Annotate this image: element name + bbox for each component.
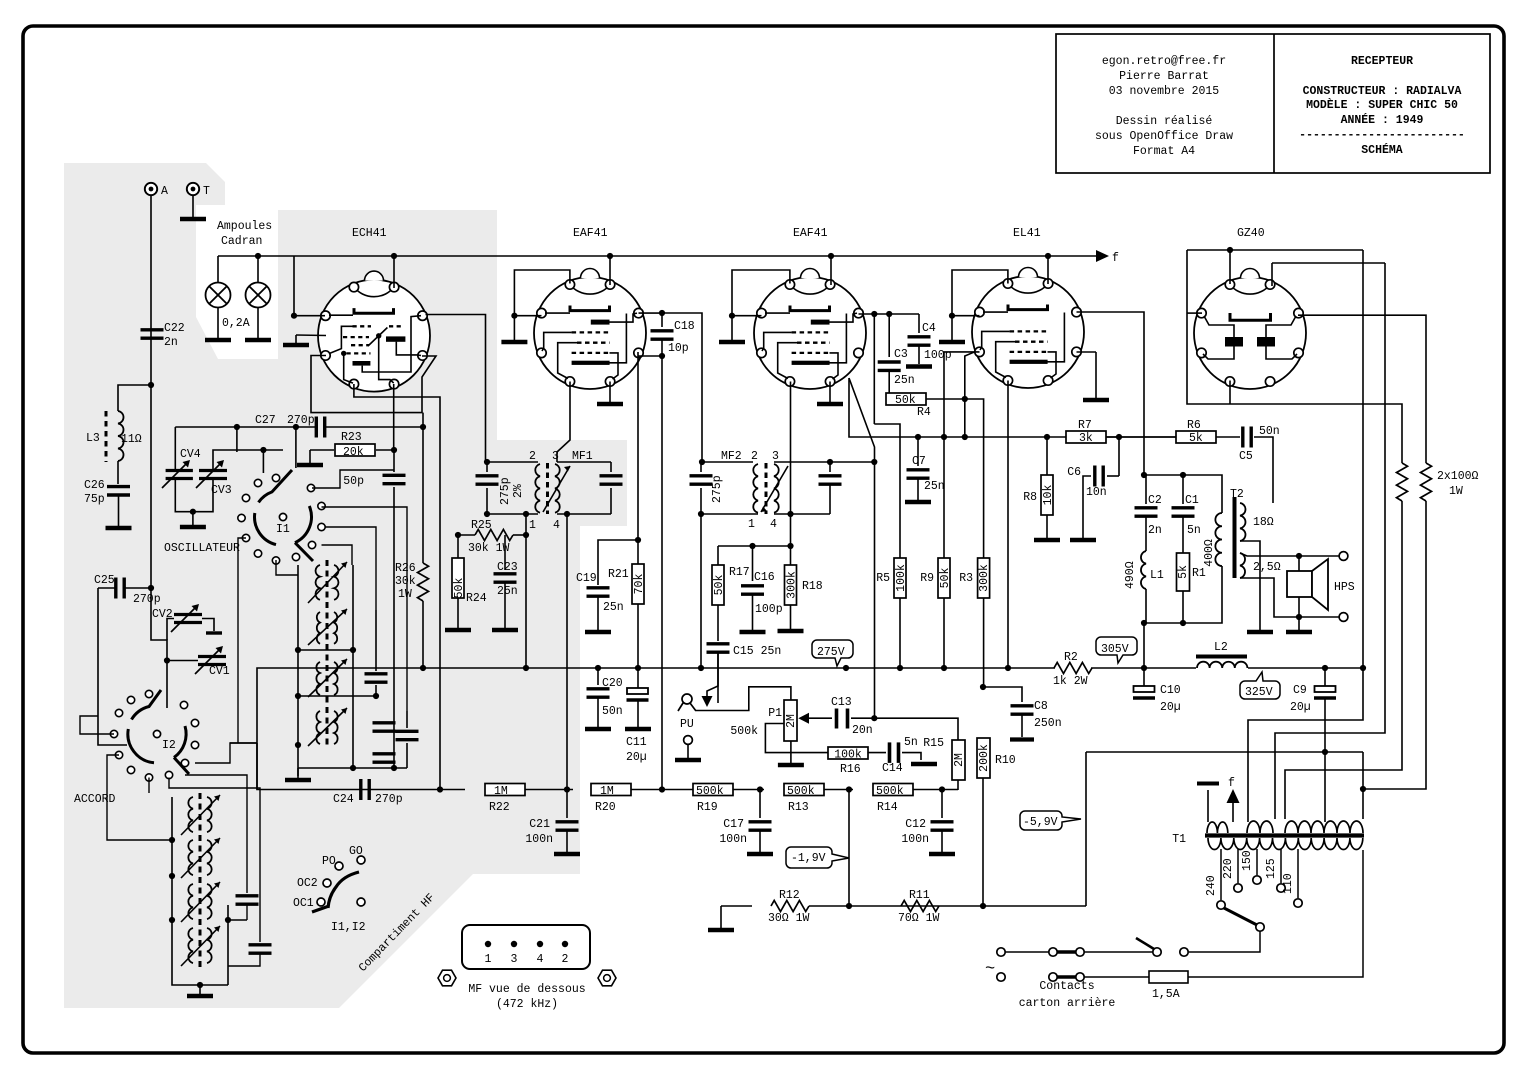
capacitor C16 — [752, 546, 754, 581]
svg-text:490Ω: 490Ω — [1124, 561, 1137, 589]
svg-text:C26: C26 — [84, 479, 105, 492]
svg-text:Pierre Barrat: Pierre Barrat — [1119, 70, 1209, 83]
wire EAF41-2 top cap — [732, 270, 790, 340]
svg-text:10p: 10p — [668, 342, 689, 355]
svg-text:50k: 50k — [895, 394, 916, 407]
svg-text:C22: C22 — [164, 322, 185, 335]
accord coil stack I2 — [181, 793, 220, 968]
wire C15 arrow into PU line — [707, 652, 718, 699]
ground R23 — [309, 450, 311, 463]
wire C13 to R15 — [874, 718, 958, 740]
svg-text:500k: 500k — [696, 785, 724, 798]
svg-text:4: 4 — [770, 518, 777, 531]
svg-text:270p: 270p — [287, 414, 315, 427]
svg-text:CV3: CV3 — [211, 484, 232, 497]
svg-text:R6: R6 — [1187, 419, 1201, 432]
svg-text:EAF41: EAF41 — [793, 227, 828, 240]
svg-text:50p: 50p — [343, 475, 364, 488]
wire EL41 top cap — [952, 270, 1008, 340]
svg-text:50k: 50k — [939, 568, 952, 589]
arrow f T1 — [1232, 800, 1234, 822]
svg-text:4: 4 — [553, 519, 560, 532]
wire speaker bottom — [1240, 578, 1339, 617]
capacitor MF1 primary 275p 2% — [476, 476, 499, 484]
capacitor C19 — [598, 540, 638, 585]
svg-text:R7: R7 — [1078, 419, 1092, 432]
wire EL41 heater — [1047, 256, 1049, 284]
svg-text:30k: 30k — [395, 575, 416, 588]
svg-text:R9: R9 — [920, 572, 934, 585]
transformer MF1 — [484, 450, 611, 532]
svg-text:2M: 2M — [785, 714, 798, 728]
capacitor accord pad 2 — [249, 945, 272, 953]
stub CV2 right — [202, 619, 214, 632]
ground stack I1 — [297, 768, 299, 778]
wire EAF41-1 anode right — [639, 312, 663, 314]
wire EAF41-1 grid to MF1 — [557, 382, 570, 463]
svg-text:150: 150 — [1241, 850, 1254, 871]
capacitor accord pad 1 — [236, 896, 259, 904]
resistor R5 — [874, 424, 900, 559]
B+ bus 275V/305V — [257, 668, 1055, 790]
resistor R20 — [591, 784, 631, 796]
AVC resistor row — [257, 743, 465, 790]
svg-text:275p: 275p — [499, 477, 512, 505]
svg-text:C20: C20 — [602, 677, 623, 690]
capacitor MF2 secondary — [829, 462, 831, 472]
svg-text:R3: R3 — [959, 572, 973, 585]
svg-text:305V: 305V — [1101, 643, 1129, 656]
svg-text:1W: 1W — [1449, 485, 1463, 498]
wire C27 line — [175, 426, 316, 428]
wire speaker center ground — [1298, 556, 1300, 630]
title block — [1056, 34, 1490, 173]
svg-text:100k: 100k — [895, 564, 908, 592]
svg-text:R25: R25 — [471, 519, 492, 532]
svg-text:C16: C16 — [754, 571, 775, 584]
capacitor C27 — [316, 417, 324, 438]
resistor R3 — [965, 399, 984, 559]
trimmer CV3 — [213, 450, 283, 469]
svg-text:R23: R23 — [341, 431, 362, 444]
svg-text:400Ω: 400Ω — [1203, 539, 1216, 567]
svg-text:R15: R15 — [923, 737, 944, 750]
resistor R23 — [376, 449, 394, 451]
svg-text:C8: C8 — [1034, 700, 1048, 713]
svg-text:C13: C13 — [831, 696, 852, 709]
svg-text:R22: R22 — [489, 801, 510, 814]
svg-text:2: 2 — [529, 450, 536, 463]
svg-text:25n: 25n — [497, 585, 518, 598]
svg-text:500k: 500k — [876, 785, 904, 798]
wire R4 to EL41 grid — [965, 352, 980, 399]
svg-text:20µ: 20µ — [1290, 701, 1311, 714]
svg-text:R24: R24 — [466, 592, 487, 605]
capacitor C4 — [918, 314, 920, 333]
capacitor osc pad C — [396, 731, 419, 739]
svg-text:MF2: MF2 — [721, 450, 742, 463]
wire CV2 left — [167, 619, 174, 641]
svg-text:1k 2W: 1k 2W — [1053, 675, 1088, 688]
svg-text:OC1: OC1 — [293, 897, 314, 910]
svg-text:200k: 200k — [978, 744, 991, 772]
svg-text:20µ: 20µ — [1160, 701, 1181, 714]
wire stack I1 left bus — [297, 565, 299, 776]
capacitor C23 — [504, 535, 506, 570]
capacitor osc pad D — [373, 754, 396, 762]
svg-text:75p: 75p — [84, 493, 105, 506]
capacitor C15 — [707, 644, 730, 652]
svg-text:275p: 275p — [711, 475, 724, 503]
rotary switch I2 — [110, 690, 198, 781]
svg-text:R14: R14 — [877, 801, 898, 814]
wire EAF41-2 heater — [830, 256, 832, 285]
svg-text:Format A4: Format A4 — [1133, 145, 1195, 158]
svg-text:3: 3 — [511, 953, 518, 966]
svg-text:2n: 2n — [164, 336, 178, 349]
wire PU to P1 — [696, 687, 791, 711]
capacitor C18 — [661, 313, 663, 327]
wire EL41 cathode down — [1007, 381, 1009, 669]
svg-text:R4: R4 — [917, 406, 931, 419]
svg-text:C15 25n: C15 25n — [733, 645, 781, 658]
svg-text:5n: 5n — [1187, 524, 1201, 537]
resistor R2 — [1054, 663, 1092, 674]
capacitor MF2 primary 275p — [690, 476, 713, 484]
svg-text:R12: R12 — [779, 889, 800, 902]
wire rail to R6 — [1119, 436, 1176, 438]
wire EAF41-1 heater — [609, 256, 611, 285]
MF connector — [462, 925, 590, 969]
wire heater return — [1086, 751, 1363, 753]
callout 305V — [1096, 637, 1137, 663]
svg-text:R20: R20 — [595, 801, 616, 814]
terminal PU — [684, 736, 693, 745]
resistor 2x100 right — [1421, 463, 1432, 501]
resistor R19 — [693, 784, 733, 796]
capacitor C12 — [941, 790, 943, 819]
svg-text:C6: C6 — [1067, 466, 1081, 479]
svg-text:10k: 10k — [1042, 485, 1055, 506]
svg-text:C21: C21 — [529, 818, 550, 831]
ground T — [192, 195, 194, 218]
lamp 2 — [246, 283, 271, 308]
ground ECH41 cathode — [296, 334, 326, 337]
mains switch — [1180, 948, 1188, 956]
wire heater bus f — [218, 255, 1097, 257]
capacitor C2 — [1144, 475, 1222, 513]
wire L1 R1 bottom tie — [1144, 566, 1222, 623]
svg-text:C7: C7 — [912, 455, 926, 468]
callout -5,9V — [1020, 811, 1081, 830]
wire EAF41-1 diode out — [637, 352, 639, 540]
svg-text:300k: 300k — [978, 564, 991, 592]
svg-text:R18: R18 — [802, 580, 823, 593]
resistor R21 — [637, 540, 639, 564]
svg-text:20µ: 20µ — [626, 751, 647, 764]
wire GZ40 top right — [1272, 262, 1385, 264]
svg-text:70k: 70k — [633, 574, 646, 595]
capacitor C6 — [1118, 437, 1120, 476]
resistor R22 — [485, 784, 525, 796]
svg-text:Cadran: Cadran — [221, 235, 262, 248]
ground EAF41-2 cathode — [829, 382, 831, 403]
svg-text:10n: 10n — [1086, 486, 1107, 499]
svg-text:------------------------: ------------------------ — [1299, 129, 1465, 142]
capacitor C14 — [888, 742, 892, 763]
node antenna/L3 — [148, 382, 154, 388]
svg-text:CV1: CV1 — [209, 665, 230, 678]
resistor R6 — [1176, 431, 1216, 443]
svg-text:ACCORD: ACCORD — [74, 793, 116, 806]
HF compartment shaded region — [64, 163, 627, 1008]
capacitor C25 — [98, 587, 116, 589]
wire GZ40 top left — [1187, 249, 1363, 251]
svg-text:GZ40: GZ40 — [1237, 227, 1265, 240]
wave switch PO GO OC — [293, 845, 366, 934]
wire EAF41-2 diode out — [790, 382, 792, 566]
svg-text:C17: C17 — [723, 818, 744, 831]
fuse 1,5A — [1149, 971, 1188, 983]
trimmer CV2 — [174, 613, 202, 616]
wire ECH41 grid column — [439, 412, 441, 790]
oscillator coil stack I1 — [308, 560, 347, 748]
svg-text:2: 2 — [751, 450, 758, 463]
svg-text:18Ω: 18Ω — [1253, 516, 1274, 529]
svg-text:50k: 50k — [453, 578, 466, 599]
svg-text:R11: R11 — [909, 889, 930, 902]
wire bus end to T1 — [1248, 668, 1363, 822]
wire osc grid — [295, 427, 297, 468]
resistor R4 — [886, 393, 926, 405]
svg-text:100p: 100p — [755, 603, 783, 616]
svg-text:240: 240 — [1205, 875, 1218, 896]
svg-text:R21: R21 — [608, 568, 629, 581]
resistor R17 — [717, 546, 719, 565]
svg-text:carton arrière: carton arrière — [1019, 997, 1116, 1010]
svg-text:sous OpenOffice Draw: sous OpenOffice Draw — [1095, 130, 1233, 143]
trimmer CV4 — [174, 427, 176, 469]
resistor R1 — [1177, 553, 1190, 591]
ground EAF41-1 left — [501, 341, 527, 343]
svg-text:220: 220 — [1222, 858, 1235, 879]
svg-text:100n: 100n — [525, 833, 553, 846]
svg-text:100k: 100k — [834, 749, 862, 762]
rotary switch I1 — [238, 470, 325, 564]
resistor R12 — [721, 905, 752, 907]
speaker HPS — [1339, 552, 1348, 561]
svg-text:OSCILLATEUR: OSCILLATEUR — [164, 542, 240, 555]
ground lamp1 — [217, 307, 219, 338]
wire MF1 pin4 down — [566, 514, 568, 790]
svg-text:0,2A: 0,2A — [222, 317, 250, 330]
wire screen rail — [849, 378, 1066, 437]
svg-text:2: 2 — [562, 953, 569, 966]
resistor R10 — [977, 738, 990, 778]
svg-text:-1,9V: -1,9V — [791, 852, 826, 865]
resistor R18 — [785, 565, 797, 605]
svg-text:C9: C9 — [1293, 684, 1307, 697]
svg-text:CV4: CV4 — [180, 448, 201, 461]
lamp 1 — [206, 283, 231, 308]
svg-text:100p: 100p — [924, 349, 952, 362]
svg-text:R5: R5 — [876, 572, 890, 585]
svg-text:R2: R2 — [1064, 651, 1078, 664]
svg-text:4: 4 — [537, 953, 544, 966]
resistor R15 — [952, 740, 965, 780]
svg-text:30Ω 1W: 30Ω 1W — [768, 912, 810, 925]
capacitor C7 — [917, 437, 919, 466]
svg-text:R19: R19 — [697, 801, 718, 814]
coil L1 — [1141, 551, 1146, 589]
svg-text:C4: C4 — [922, 322, 936, 335]
wire 18R bottom to ground — [1240, 541, 1260, 630]
wire antenna — [151, 195, 167, 708]
svg-text:C12: C12 — [905, 818, 926, 831]
svg-text:T2: T2 — [1230, 488, 1244, 501]
wire C25 left drop — [98, 588, 127, 745]
svg-text:1M: 1M — [600, 785, 614, 798]
svg-text:270p: 270p — [375, 793, 403, 806]
wire MF2 sec top to grid — [774, 461, 830, 463]
svg-text:50k: 50k — [713, 575, 726, 596]
svg-text:L2: L2 — [1214, 641, 1228, 654]
svg-text:(472 kHz): (472 kHz) — [496, 998, 558, 1011]
resistor R8 — [1046, 437, 1048, 475]
svg-text:30k 1W: 30k 1W — [468, 542, 510, 555]
svg-text:3: 3 — [772, 450, 779, 463]
svg-text:2M: 2M — [953, 753, 966, 767]
capacitor C10 electrolytic — [1143, 668, 1145, 686]
resistor R16 — [828, 747, 868, 759]
T1 secondary taps — [1220, 849, 1222, 900]
wire ECH41 anode to MF1 — [426, 315, 486, 463]
svg-text:T1: T1 — [1172, 833, 1186, 846]
ground CV3 CV4 — [175, 480, 213, 512]
wire C18 bypass — [662, 313, 702, 462]
svg-text:ANNÉE : 1949: ANNÉE : 1949 — [1341, 113, 1424, 127]
capacitor C9 electrolytic — [1324, 668, 1326, 686]
svg-text:2,5Ω: 2,5Ω — [1253, 561, 1281, 574]
svg-text:C24: C24 — [333, 793, 354, 806]
svg-text:1: 1 — [485, 953, 492, 966]
svg-text:A: A — [161, 185, 168, 198]
ground EAF41-2 left — [719, 341, 745, 343]
callout 325V — [1240, 672, 1280, 699]
svg-text:C23: C23 — [497, 561, 518, 574]
svg-text:I1: I1 — [276, 523, 290, 536]
svg-text:Ampoules: Ampoules — [217, 220, 272, 233]
svg-text:250n: 250n — [1034, 717, 1062, 730]
svg-text:MF vue de dessous: MF vue de dessous — [468, 983, 585, 996]
svg-text:RECEPTEUR: RECEPTEUR — [1351, 55, 1413, 68]
svg-text:500k: 500k — [787, 785, 815, 798]
wire 100R bottoms — [1285, 501, 1402, 819]
capacitor 50p — [383, 475, 406, 483]
wire ECH41 bottom pins down — [354, 384, 440, 412]
svg-text:R13: R13 — [788, 801, 809, 814]
wire CV1 left — [167, 660, 198, 662]
capacitor C13 — [835, 709, 839, 729]
capacitor osc pad B — [373, 723, 396, 731]
resistor R13 — [784, 784, 824, 796]
svg-text:50n: 50n — [602, 705, 623, 718]
trimmer CV1 — [198, 655, 226, 658]
svg-text:03 novembre 2015: 03 novembre 2015 — [1109, 85, 1220, 98]
svg-text:1M: 1M — [494, 785, 508, 798]
capacitor C17 — [759, 790, 761, 819]
wire MF2 top feed — [702, 461, 753, 463]
svg-text:50n: 50n — [1259, 425, 1280, 438]
wire AVC to R12 junction — [848, 790, 850, 907]
svg-text:EAF41: EAF41 — [573, 227, 608, 240]
wire wiper branch — [765, 724, 828, 753]
wire I1 pins to coils — [238, 538, 246, 743]
svg-text:C1: C1 — [1185, 494, 1199, 507]
svg-text:R8: R8 — [1023, 491, 1037, 504]
svg-text:270p: 270p — [133, 593, 161, 606]
svg-text:CONSTRUCTEUR : RADIALVA: CONSTRUCTEUR : RADIALVA — [1303, 85, 1462, 98]
svg-text:R1: R1 — [1192, 567, 1206, 580]
svg-text:C14: C14 — [882, 762, 903, 775]
voltage selector arm — [1224, 908, 1257, 925]
capacitor osc pad A — [365, 674, 388, 682]
resistor 2x100 left — [1397, 463, 1408, 501]
capacitor C11 electrolytic — [637, 668, 639, 688]
svg-text:Contacts: Contacts — [1039, 980, 1094, 993]
svg-text:L3: L3 — [86, 432, 100, 445]
svg-text:C10: C10 — [1160, 684, 1181, 697]
svg-text:2x100Ω: 2x100Ω — [1437, 470, 1479, 483]
svg-text:R17: R17 — [729, 566, 750, 579]
svg-text:C11: C11 — [626, 736, 647, 749]
wire speaker top — [1240, 553, 1339, 556]
svg-text:SCHÉMA: SCHÉMA — [1361, 143, 1403, 157]
pickup PU — [682, 694, 692, 704]
svg-text:I2: I2 — [162, 739, 176, 752]
wire T1 primary left chassis — [1207, 790, 1209, 822]
svg-text:25n: 25n — [603, 601, 624, 614]
svg-text:1,5A: 1,5A — [1152, 988, 1180, 1001]
svg-text:f: f — [1228, 777, 1235, 790]
svg-text:I1,I2: I1,I2 — [331, 921, 366, 934]
svg-text:PO: PO — [322, 855, 336, 868]
potentiometer P1 — [784, 700, 797, 741]
wire GZ40 anode stubs — [1187, 312, 1202, 314]
resistor R11 — [901, 901, 939, 912]
wire GZ40 cathode down — [1229, 381, 1231, 405]
ground EAF41-1 cathode — [609, 382, 611, 403]
ground C26 — [118, 496, 120, 526]
svg-text:11Ω: 11Ω — [121, 433, 142, 446]
wire det tee — [718, 545, 791, 547]
svg-text:100n: 100n — [719, 833, 747, 846]
svg-text:100n: 100n — [901, 833, 929, 846]
wire ECH41 left pin — [294, 256, 325, 316]
resistor R9 — [943, 437, 945, 559]
svg-text:ECH41: ECH41 — [352, 227, 387, 240]
terminal T — [187, 183, 199, 195]
resistor R24 — [457, 535, 459, 558]
svg-text:egon.retro@free.fr: egon.retro@free.fr — [1102, 55, 1226, 68]
svg-text:25n: 25n — [894, 374, 915, 387]
svg-text:1W: 1W — [398, 588, 412, 601]
choke L2 — [1196, 655, 1247, 659]
svg-text:5n: 5n — [904, 736, 918, 749]
svg-text:C25: C25 — [94, 574, 115, 587]
wire lamp drops — [217, 256, 219, 283]
capacitor C5 — [1243, 427, 1251, 448]
